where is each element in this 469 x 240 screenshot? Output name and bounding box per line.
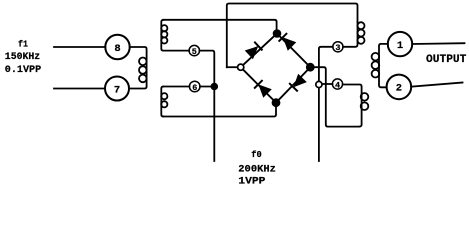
wire terminal 4 to center-tap junction bbox=[319, 83, 332, 85]
terminal 6 bbox=[189, 81, 200, 93]
wire terminal 5 to center-tap junction bbox=[200, 51, 215, 87]
svg-text:3: 3 bbox=[335, 43, 340, 53]
terminal 4 bbox=[332, 79, 342, 90]
wire to diode ring left vertex bbox=[227, 66, 238, 68]
wire terminal 3 to center-tap junction bbox=[319, 47, 333, 85]
terminal 8 bbox=[105, 35, 129, 59]
diode ring edge: top to right bbox=[277, 34, 310, 68]
svg-text:4: 4 bbox=[335, 80, 340, 90]
terminal 1 bbox=[388, 32, 412, 56]
wire T1 bottom winding to diode ring bottom vertex bbox=[163, 103, 276, 117]
svg-text:2: 2 bbox=[396, 83, 402, 95]
wire diode ring right vertex to T2 bottom winding bbox=[313, 67, 359, 126]
diode D2 (right-to-top edge, pointing to top vertex) bbox=[279, 33, 297, 51]
f0 feed stub right (from T2 center tap) bbox=[318, 85, 320, 162]
svg-text:f0: f0 bbox=[251, 149, 262, 160]
wire T1 top winding to diode ring top vertex bbox=[163, 20, 276, 34]
svg-text:1VPP: 1VPP bbox=[238, 177, 265, 188]
wire T1 bottom winding to terminal 6 bbox=[163, 86, 189, 88]
f0 feed stub left (from T1 center tap) bbox=[213, 87, 215, 162]
junction dot: T1 center tap (terminals 5+6) bbox=[211, 84, 217, 90]
label f1 source bbox=[5, 39, 41, 76]
svg-text:5: 5 bbox=[192, 47, 197, 57]
T1 secondary top winding bbox=[161, 20, 189, 51]
svg-text:OUTPUT: OUTPUT bbox=[426, 54, 467, 66]
primary winding of transformer T1 bbox=[129, 47, 147, 89]
label f0 source bbox=[238, 149, 276, 188]
terminal 5 bbox=[189, 45, 199, 57]
diode ring edge: left to bottom bbox=[241, 67, 276, 103]
diode ring edge: left to top bbox=[241, 34, 277, 68]
terminal 3 bbox=[333, 42, 343, 53]
diode D1 (left-to-top edge, pointing to top vertex) bbox=[245, 42, 263, 60]
output wire bottom bbox=[411, 83, 462, 87]
diode ring right vertex junction dot bbox=[307, 64, 314, 71]
svg-text:150KHz: 150KHz bbox=[5, 52, 40, 63]
T2 center-tap junction (terminals 3+4, open ring) bbox=[316, 81, 322, 87]
svg-text:1: 1 bbox=[397, 40, 403, 52]
diode D4 (right-to-bottom edge, pointing to bottom vertex) bbox=[289, 74, 307, 92]
wire terminal 6 to center-tap junction bbox=[200, 86, 214, 88]
T2 primary bottom winding bbox=[343, 85, 369, 127]
diode ring top vertex junction dot bbox=[274, 30, 281, 37]
svg-text:7: 7 bbox=[114, 84, 120, 96]
svg-text:8: 8 bbox=[114, 43, 120, 55]
svg-text:6: 6 bbox=[192, 83, 197, 93]
output wire top bbox=[412, 42, 464, 45]
wire input to terminal 7 bbox=[54, 88, 105, 90]
T2 primary top winding bbox=[343, 22, 365, 47]
terminal 2 bbox=[387, 75, 412, 100]
svg-text:f1: f1 bbox=[18, 39, 28, 50]
T2 output (secondary) winding bbox=[372, 44, 388, 87]
wire input to terminal 8 bbox=[54, 46, 105, 48]
diode ring bottom vertex junction dot bbox=[273, 99, 280, 106]
diode D3 (bottom-to-left edge, pointing to left vertex) bbox=[254, 80, 272, 98]
svg-text:200KHz: 200KHz bbox=[238, 165, 276, 176]
top rail: diode ring left vertex to T2 top winding bbox=[227, 4, 358, 68]
terminal 7 bbox=[105, 77, 129, 101]
diode ring left vertex open junction bbox=[238, 64, 244, 70]
T1 secondary bottom winding bbox=[161, 87, 167, 117]
diode ring edge: bottom to right bbox=[276, 67, 310, 103]
svg-text:0.1VPP: 0.1VPP bbox=[5, 65, 41, 76]
